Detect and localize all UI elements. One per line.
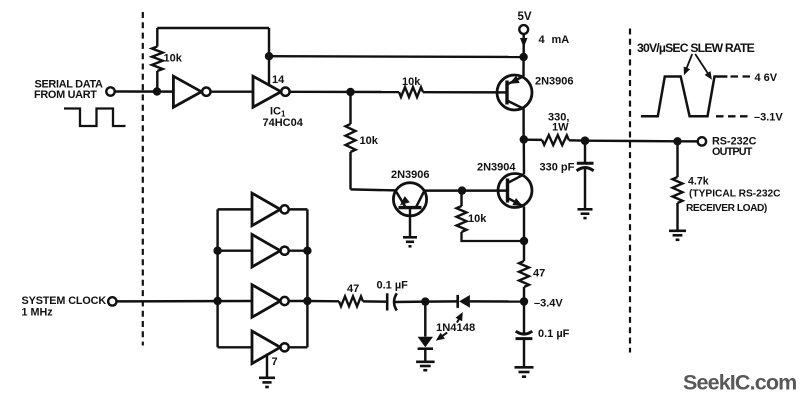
transistor Q1 2N3906 body [497,75,532,110]
svg-text:mA: mA [552,34,570,46]
label 0.1 uF (coupling) [377,280,409,292]
ground (4.7k load) [669,231,686,240]
label 30V/uSEC SLEW RATE [637,41,755,55]
inverter U1A output bubble [202,88,210,96]
wire 0.1uF top stub [523,302,525,335]
node junction at mid 10k [346,88,354,96]
svg-text:FROM UART: FROM UART [34,89,97,101]
label 330 pF [540,162,575,174]
wire 5V rail to pin-14 node [269,55,524,58]
wire to output terminal [678,140,698,143]
Q2 right arm (collector) [416,191,425,208]
wire 10k pullup bottom stub [156,71,158,92]
wire U1D output to bus [289,249,308,251]
node junction Q3 base [458,186,466,194]
node junction Q1 collector (output node) [520,135,528,143]
capacitor C 0.1 uF (coupling) [387,293,397,310]
resistor R 10k (to Q2 base) [346,124,356,152]
wire 4.7k to ground [676,203,678,231]
Q1 base bar [505,81,508,105]
wire R330 to 330pF node [569,139,585,142]
transistor Q2 2N3906 body [393,183,426,216]
wire vertical x=269 (pin-14 feed) [268,28,270,86]
label RECEIVER LOAD) [686,203,767,214]
svg-text:30V/µSEC SLEW RATE: 30V/µSEC SLEW RATE [637,41,755,55]
resistor R 10k series (horizontal) [399,87,423,97]
wire input to inverter U1F [218,346,252,348]
label 330, [548,112,569,124]
svg-text:SYSTEM CLOCK: SYSTEM CLOCK [22,295,107,307]
wire D1 anode to -3.4V node [470,300,524,303]
Q3 collector diagonal [508,174,525,183]
wire R47 to C 0.1uF [363,300,387,303]
label 74HC04 [263,117,304,129]
node junction left bus row2 [213,247,221,255]
label 10k (series) [402,76,421,88]
svg-text:5V: 5V [518,11,532,23]
svg-text:OUTPUT: OUTPUT [712,146,753,158]
resistor R 4.7k [673,177,683,203]
inverter U1C (74HC04) [252,193,280,226]
wire U1E output to bus [289,300,308,302]
wire Q1 collector down to output node [522,109,524,140]
label 2N3906 (Q1) [535,76,574,88]
svg-text:14: 14 [272,74,285,86]
square-wave symbol (serial data) [64,109,126,127]
svg-text:2N3904: 2N3904 [477,162,516,174]
label -3.4V [534,298,563,310]
capacitor C 330 pF [577,163,594,171]
node junction diode pump [421,297,429,305]
svg-text:–3.4V: –3.4V [534,298,563,310]
wire Q3 collector to output node [523,140,526,175]
wire bus to R47 [307,300,339,303]
label 47 (clock) [347,283,359,295]
svg-text:SeekIC.com: SeekIC.com [683,371,796,395]
svg-text:4.7k: 4.7k [688,176,709,188]
Q1 base wire inside [497,91,507,93]
node junction at 10k pullup / input [153,87,161,95]
wire 330pF node to 4.7k node [585,139,678,142]
svg-text:0.1 µF: 0.1 µF [538,328,570,340]
waveform trace (slew) [641,77,728,117]
inverter U1C output bubble [281,205,289,213]
inverter U1E (74HC04) [252,285,280,318]
slew callout arrow left [684,54,693,75]
node junction 330pF tap [581,136,590,145]
label 2N3906 (Q2) [391,169,430,181]
label 4.7k [688,176,709,188]
svg-text:74HC04: 74HC04 [263,117,304,129]
Q1 emitter diagonal [507,76,524,84]
svg-text:–3.1V: –3.1V [754,112,783,124]
wire mid 10k bottom stub [349,152,351,189]
resistor R 10k pullup [152,47,163,72]
Q2 base bar (horizontal) [399,206,422,209]
wire right bus (paralleled outputs) [306,209,308,347]
dashed level line -3.1V [716,115,751,117]
svg-text:10k: 10k [468,213,487,225]
resistor R 330 1W [542,135,569,145]
label 1W [552,122,569,134]
wire 10k(Q3) top stub [460,191,462,206]
inverter U1E output bubble [281,297,289,305]
node junction pin-14 feed [265,52,273,60]
capacitor C 0.1 uF (filter) [516,331,533,338]
dashed boundary line (left, input side) [142,12,144,346]
wire Q3 emitter down [523,207,525,241]
Q1 collector diagonal [507,101,524,109]
inverter U1A (74HC04) [173,76,201,107]
RS-232C output terminal [698,137,706,145]
svg-text:47: 47 [347,283,359,295]
wire 0.1uF to ground [523,339,525,367]
wire input to inverter U1D [218,249,252,251]
current-flow arrowhead 5V [520,38,528,48]
resistor R 47 (clock) [339,296,363,306]
diode D2 1N4148 (vertical) [418,337,433,349]
wire to Q2 left arm [351,189,396,190]
label 0.1 uF (filter) [538,328,570,340]
wire 330pF top stub [584,141,586,164]
node junction -3.4V [520,297,528,305]
wire Q1 emitter up to 5V node [522,57,525,76]
node junction 5V rail [519,53,527,61]
wire 10k(Q3) bottom elbow [462,232,525,241]
Q1 emitter arrow (PNP) [509,76,520,84]
svg-text:10k: 10k [402,76,421,88]
svg-text:0.1 µF: 0.1 µF [377,280,409,292]
ground (330pF) [578,209,593,218]
Q2 left arm (emitter) [395,190,405,207]
callout arrow to D1 [456,312,463,323]
svg-text:1 MHz: 1 MHz [22,307,54,319]
wire top feedback y=28 [157,27,269,29]
dashed level line 4.6V [731,75,751,77]
SeekIC.com watermark [683,371,796,395]
pin 14 label [272,74,285,86]
label IC1 [270,106,286,119]
5V supply terminal [519,25,528,34]
svg-text:330 pF: 330 pF [540,162,575,174]
svg-text:7: 7 [272,356,278,368]
callout arrow to D2 [436,333,447,341]
wire U1B out to R 10k series [290,91,399,94]
wire D2 to ground [424,349,426,362]
label 4 6V [755,72,778,84]
label 2N3904 [477,162,516,174]
ground (pin 7) [259,378,275,387]
label -3.1V [754,112,783,124]
svg-text:2N3906: 2N3906 [391,169,430,181]
svg-text:(TYPICAL RS-232C: (TYPICAL RS-232C [689,189,781,200]
diode D1 1N4148 (horizontal) [458,295,470,308]
Q3 base bar [506,179,509,203]
wire R 10k to Q1 base [423,91,507,94]
label 10k (Q3) [468,213,487,225]
label RS-232C OUTPUT [712,136,757,159]
label 47 (emitter) [533,268,545,280]
wire 47 to -3.4V node [523,287,525,302]
svg-text:10k: 10k [360,135,379,147]
wire 5V to rail node [522,34,524,57]
wire C to diode node [394,300,425,303]
resistor R 47 (emitter) [519,261,529,287]
svg-text:47: 47 [533,268,545,280]
wire pin7 to ground [266,354,268,378]
wire U1C output to bus [289,208,308,210]
label 10k (Q2 base) [360,135,379,147]
inverter U1D (74HC04) [252,234,280,267]
inverter U1F output bubble [281,343,289,351]
Q3 emitter diagonal [508,198,525,207]
Q2 emitter arrow (PNP) [400,196,410,205]
transistor Q3 2N3904 body [498,174,532,208]
wire U1A out to U1B in [211,90,254,92]
wire input to inverter U1C [218,208,252,210]
node junction Q3 emitter / 47 [520,237,528,245]
label 1N4148 [436,322,475,334]
ground (D2) [416,362,435,370]
resistor R 10k (Q3 base-emitter) [457,206,467,232]
ground (Q2) [403,237,417,246]
svg-text:RECEIVER LOAD): RECEIVER LOAD) [686,203,767,214]
wire clock terminal to bus [117,300,253,303]
wire node to D1 cathode [425,300,457,303]
wire left bus (clock distribution) [216,209,218,347]
label 5V [518,11,532,23]
inverter U1B output bubble [281,88,289,96]
label SYSTEM CLOCK [22,295,107,307]
Q3 emitter arrow (NPN) [512,198,522,206]
Q2 emitter leg to ground [409,208,411,237]
svg-text:4: 4 [539,34,546,46]
inverter U1D output bubble [281,247,289,255]
label 1 MHz [22,307,54,319]
ground (0.1uF filter) [515,367,534,376]
label (TYPICAL RS-232C [689,189,781,200]
svg-text:1W: 1W [552,122,569,134]
label 10k (pullup) [164,53,183,65]
svg-text:2N3906: 2N3906 [535,76,574,88]
wire 47 top stub [523,241,525,261]
wire node to D2 [424,302,426,337]
pin 7 label [272,356,278,368]
label 4 mA [539,34,570,46]
wire input terminal to inverter U1A [115,90,173,93]
inverter U1B (74HC04) [253,76,281,107]
wire mid 10k top stub [349,92,351,124]
svg-text:10k: 10k [164,53,183,65]
slew callout arrow right [695,54,712,80]
wire 330pF to ground [584,169,586,210]
wire 4.7k top stub [676,141,678,177]
node junction left bus row3 [213,297,221,305]
wire node to Q3 base [462,189,508,191]
system clock input terminal [108,297,116,305]
node junction right bus row2 [303,247,311,255]
wire 10k pullup top stub [156,28,158,47]
label SERIAL DATA FROM UART [34,79,103,102]
wire output node to R330 [524,138,542,141]
serial data input terminal [106,87,114,95]
dashed boundary line (right, output side) [629,29,631,353]
wire U1F output to bus [289,346,308,348]
wire Q2 to node at Q3 base [425,189,463,191]
inverter U1F (74HC04) [252,331,280,364]
node junction 4.7k tap [673,137,681,145]
node junction right bus row3 [303,297,311,305]
svg-text:1N4148: 1N4148 [436,322,475,334]
svg-text:4 6V: 4 6V [755,72,778,84]
